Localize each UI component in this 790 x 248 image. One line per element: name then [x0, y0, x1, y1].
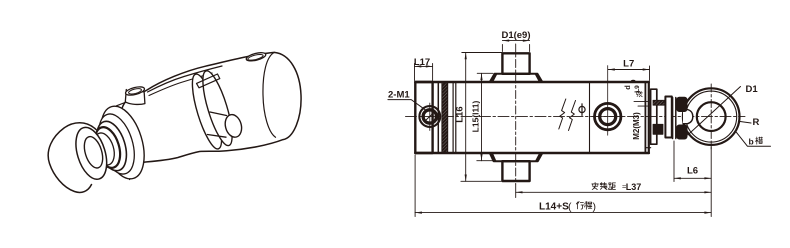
eye tongue	[683, 110, 693, 124]
b-slot leader	[736, 132, 771, 147]
tube joint double line	[452, 82, 454, 153]
svg-text:2-M1: 2-M1	[388, 90, 410, 101]
label 2-M1 with leader	[388, 90, 427, 111]
tube top edge	[415, 81, 649, 84]
rod eye outer body	[48, 123, 96, 193]
tube body silhouette	[118, 52, 301, 162]
svg-text:M2(M3): M2(M3)	[632, 112, 641, 140]
dim L6	[674, 141, 711, 182]
svg-text:D1: D1	[746, 84, 759, 95]
hanzi 行	[576, 202, 583, 210]
band top flat pad	[197, 74, 220, 88]
trunnion pin block top	[502, 53, 529, 74]
dim L17	[414, 57, 433, 81]
dim d depth labels	[623, 80, 649, 106]
svg-text:R: R	[753, 117, 760, 128]
rod eye hole	[81, 134, 106, 170]
rod section dark bottom	[653, 124, 663, 134]
hanzi 距	[609, 183, 616, 190]
phi diameter symbol	[579, 106, 585, 112]
tube front rim third arc	[149, 73, 212, 96]
diagonal diameter line D1	[688, 87, 741, 135]
dim D1(e9)	[501, 30, 530, 52]
hanzi 安	[592, 183, 598, 190]
ring center extension down	[710, 147, 712, 217]
gland front face ellipse	[93, 101, 152, 184]
bottom flange boss	[490, 153, 543, 161]
svg-text:L17: L17	[414, 57, 430, 68]
svg-text:L9: L9	[634, 85, 641, 93]
head top port nib	[125, 90, 145, 105]
svg-text:L37: L37	[626, 182, 642, 192]
dim L16	[455, 53, 503, 182]
clamp band rings (clipped to tube)	[187, 68, 238, 151]
svg-text:L7: L7	[623, 59, 634, 70]
rod eye face ring	[70, 124, 112, 183]
ring vertical centerline	[710, 84, 712, 149]
rod collar	[651, 89, 657, 144]
tube front rim inner arc	[148, 66, 223, 92]
gland cylinder silhouette	[117, 103, 142, 180]
head joint line	[589, 82, 591, 153]
cap top port oval	[245, 51, 266, 62]
R leader	[738, 121, 751, 123]
clevis block lower	[677, 125, 687, 139]
tube bottom edge	[415, 152, 649, 155]
svg-text:L15(l11): L15(l11)	[470, 101, 480, 133]
gland hatch band	[442, 83, 448, 152]
hanzi 程	[584, 202, 591, 210]
dim L7	[608, 59, 650, 81]
break symbol	[559, 99, 566, 129]
svg-text:D1(e9): D1(e9)	[501, 30, 530, 41]
port left 2-M1	[419, 103, 440, 131]
svg-text:L6: L6	[687, 166, 698, 177]
head right face double line	[644, 82, 646, 153]
head bottom step line	[645, 147, 650, 149]
rod thread hatched top	[653, 100, 666, 105]
trunnion vertical centerline	[515, 44, 517, 184]
hanzi 装	[600, 183, 607, 190]
svg-text:L16: L16	[455, 106, 466, 122]
jam ring double line	[672, 98, 674, 139]
hanzi 深 rotated + L9	[637, 91, 643, 96]
svg-text:b: b	[749, 137, 754, 147]
centerline main horizontal	[406, 116, 746, 118]
band side port nib	[208, 112, 227, 137]
rod nut	[665, 97, 671, 138]
label b + hanzi 槽	[749, 137, 763, 147]
dim L15(l11)	[470, 73, 494, 160]
cap ring joint line	[437, 82, 439, 153]
clevis block upper	[677, 97, 687, 111]
svg-text:(: (	[568, 201, 572, 213]
rod eye ring	[683, 88, 740, 145]
trunnion pin block bottom	[502, 161, 529, 181]
cap face inner rim	[263, 52, 276, 137]
svg-text:): )	[593, 201, 597, 213]
dim install distance	[516, 182, 712, 193]
top flange boss	[490, 74, 543, 82]
svg-text:L14+S: L14+S	[539, 202, 569, 213]
dim L14+S stroke	[415, 155, 711, 217]
port right	[593, 66, 624, 136]
svg-text:d: d	[623, 85, 632, 90]
gland collar ring stack	[92, 110, 141, 179]
cylinder cap (left end)	[415, 82, 432, 153]
